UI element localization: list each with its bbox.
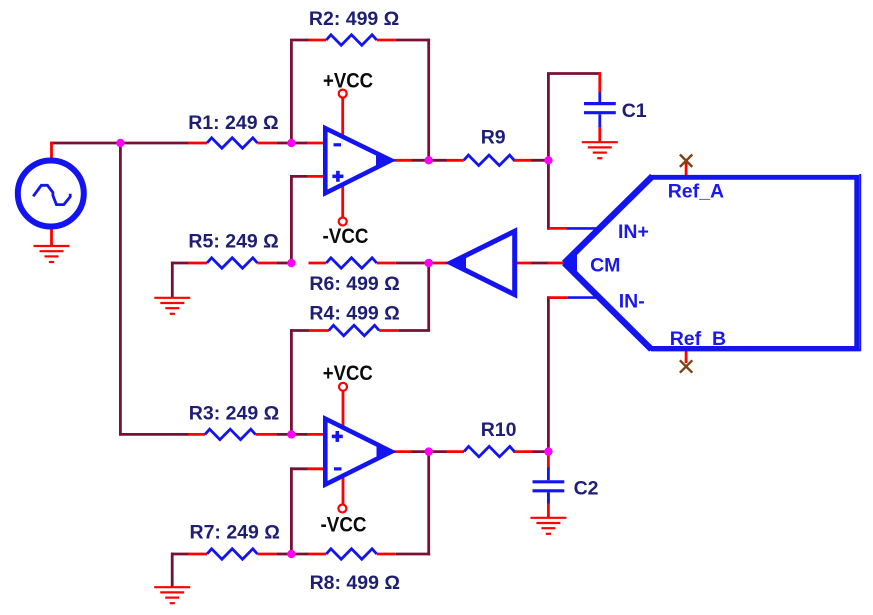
- pin U2 minus: [307, 467, 326, 470]
- pin R5 right: [257, 262, 276, 265]
- ground (R5 leg): [154, 298, 190, 314]
- RED pin stubs: [52, 40, 687, 554]
- pin chevron IN-: [548, 296, 568, 299]
- resistor R4: [329, 325, 379, 335]
- pin R8 left: [309, 553, 327, 556]
- pin buffer in: [513, 262, 532, 265]
- resistor R8: [326, 549, 376, 559]
- svg-text:R8: 499 Ω: R8: 499 Ω: [310, 572, 400, 594]
- wire R7 ground leg horizontal: [171, 553, 189, 556]
- pin U1 plus: [307, 175, 326, 178]
- capacitor C2: [533, 468, 565, 504]
- svg-text:R5: 249 Ω: R5: 249 Ω: [188, 231, 278, 253]
- pin R4 right: [379, 329, 398, 332]
- resistor R6: [326, 258, 376, 268]
- wire R8 right to vertical: [396, 553, 430, 556]
- junction node 7: [287, 430, 295, 438]
- wire R7 ground leg vertical: [171, 553, 174, 587]
- pin R10 right: [513, 450, 532, 453]
- pin R2 left: [309, 39, 327, 42]
- pin U1 out: [393, 159, 412, 162]
- power +VCC (U1): [339, 90, 347, 98]
- wire R2 left horizontal stub: [290, 39, 309, 42]
- pin C1 top: [598, 72, 601, 93]
- resistor R10: [464, 446, 514, 456]
- differential input device U4 (chevron body): [564, 174, 861, 351]
- junction node 2: [287, 139, 295, 147]
- wire R8 left stub: [290, 553, 309, 556]
- pin Ref_A stub: [685, 161, 688, 177]
- pin source top: [50, 142, 53, 161]
- resistor R2: [326, 35, 376, 45]
- ground (R7 leg): [154, 587, 190, 603]
- pin source bottom: [50, 227, 53, 247]
- wire node2 up to R2 left: [290, 41, 293, 143]
- svg-text:R2: 499 Ω: R2: 499 Ω: [309, 8, 399, 30]
- pin R7 right: [257, 553, 276, 556]
- pin U2 vcc top: [342, 391, 345, 428]
- pin R10 left: [447, 450, 465, 453]
- svg-text:+VCC: +VCC: [323, 362, 373, 385]
- wire R8 right vertical up to node8: [427, 452, 430, 556]
- pin R6 left: [309, 262, 327, 265]
- pin U1 vcc top: [341, 98, 344, 137]
- pin R7 left: [188, 553, 207, 556]
- pin R3 left: [188, 433, 205, 436]
- ground (C1): [582, 142, 618, 158]
- resistor R7: [207, 549, 257, 559]
- junction node 8: [425, 447, 433, 455]
- pin U2 plus: [307, 433, 326, 436]
- wire node9 up to IN- row: [547, 296, 550, 453]
- pin R2 right: [377, 39, 396, 42]
- svg-text:Ref_A: Ref_A: [668, 181, 724, 203]
- pin U2 out: [393, 450, 412, 453]
- svg-text:R3: 249 Ω: R3: 249 Ω: [189, 403, 279, 425]
- wire output U2 to node8: [411, 450, 447, 453]
- wire R4 left horizontal: [290, 329, 310, 332]
- wire source top to R1: [50, 142, 189, 145]
- junction node 6: [425, 259, 433, 267]
- svg-text:-VCC: -VCC: [321, 513, 367, 536]
- wire R6 zig right to triangle node: [396, 262, 430, 265]
- svg-text:IN-: IN-: [619, 290, 645, 312]
- svg-text:C2: C2: [574, 478, 599, 500]
- pin R1 right: [257, 142, 276, 145]
- wire R5 ground leg horizontal: [171, 262, 189, 265]
- svg-text:R10: R10: [481, 419, 517, 441]
- wire node4 up to C1 top run: [547, 74, 550, 162]
- power -VCC (U1): [339, 218, 347, 226]
- op-amp U2: [325, 419, 391, 485]
- pin R4 left: [310, 329, 329, 332]
- junction node 1: [116, 139, 124, 147]
- svg-text:IN+: IN+: [618, 221, 649, 243]
- junction node 10: [287, 550, 295, 558]
- wire R3 row horizontal: [119, 433, 189, 436]
- wire op-amp U2 minus vertical down to node10: [290, 467, 293, 554]
- wire long left vertical from node 1 to R3 row: [119, 143, 122, 434]
- wire op-amp U1 plus input horizontal: [290, 175, 308, 178]
- resistor R3: [205, 429, 255, 439]
- wire R10 right to node9: [532, 450, 550, 453]
- wire R4 right horizontal: [398, 329, 430, 332]
- pin R1 left: [188, 142, 207, 145]
- svg-text:CM: CM: [590, 255, 620, 277]
- pin R9 left: [447, 159, 464, 162]
- wire R5 ground leg vertical: [171, 262, 174, 297]
- wire R6 right to node6: [276, 262, 291, 265]
- ground (source): [34, 246, 70, 262]
- wire R1 right to op-amp U1 minus node: [276, 142, 308, 145]
- pin R8 right: [377, 553, 396, 556]
- wire op-amp U2 minus horizontal: [290, 467, 308, 470]
- junction node 3: [425, 156, 433, 164]
- pin U1 minus: [307, 142, 326, 145]
- wire op-amp U1 plus input vertical down to node5: [290, 175, 293, 263]
- pin C1 bottom: [598, 127, 601, 142]
- svg-text:R6: 499 Ω: R6: 499 Ω: [309, 273, 399, 295]
- wire triangle input to chevron CM: [531, 262, 549, 265]
- junction node 5: [287, 259, 295, 267]
- wire R2 right to output vertical: [396, 39, 430, 42]
- pin chevron CM: [548, 262, 565, 265]
- wire C1 top horizontal: [547, 72, 600, 75]
- resistor R1: [207, 138, 257, 148]
- pin C2 top: [547, 450, 550, 468]
- node Ref_B terminal X: [680, 360, 692, 372]
- junction node 9: [544, 447, 552, 455]
- wire R2 right vertical down to node3: [427, 39, 430, 161]
- power +VCC (U2): [339, 383, 347, 391]
- wire R7 right to node10: [276, 553, 291, 556]
- wire node6 down to R4 right: [427, 263, 430, 331]
- svg-text:+VCC: +VCC: [323, 69, 373, 92]
- svg-text:R9: R9: [481, 127, 506, 149]
- pin C2 bottom: [547, 492, 550, 517]
- node Ref_A terminal X: [680, 155, 692, 167]
- svg-text:R7: 249 Ω: R7: 249 Ω: [190, 521, 280, 543]
- op-amp U1: [325, 128, 391, 193]
- pin chevron IN+: [548, 227, 567, 230]
- wire R4 left vertical down to node7: [290, 329, 293, 434]
- resistor R9: [464, 155, 514, 165]
- svg-text:R4: 499 Ω: R4: 499 Ω: [309, 303, 399, 325]
- AC source V1: [18, 161, 84, 227]
- power -VCC (U2): [338, 505, 346, 513]
- ground (C2): [530, 518, 566, 534]
- pin buffer out: [432, 262, 450, 265]
- pin R3 right: [255, 433, 276, 436]
- pin U2 vcc bottom: [342, 475, 345, 505]
- pin Ref_B stub: [685, 350, 688, 364]
- wire node7 to op-amp U2 plus: [276, 433, 308, 436]
- pin R6 right: [377, 262, 396, 265]
- wire node4 down to IN+ row: [547, 159, 550, 230]
- svg-text:-VCC: -VCC: [323, 225, 369, 248]
- svg-text:R1: 249 Ω: R1: 249 Ω: [188, 112, 278, 134]
- svg-text:C1: C1: [622, 100, 647, 122]
- junction node 4: [544, 156, 552, 164]
- WIRES (maroon): [50, 39, 600, 587]
- pin R5 left: [188, 262, 207, 265]
- pin U1 vcc bottom: [341, 184, 344, 218]
- wire R9 right to node4: [531, 159, 550, 162]
- pin R9 right: [513, 159, 532, 162]
- buffer U3 (CM follower, points left): [451, 231, 515, 294]
- wire output U1 to node3: [411, 159, 447, 162]
- capacitor C1: [584, 93, 616, 128]
- resistor R5: [207, 258, 257, 268]
